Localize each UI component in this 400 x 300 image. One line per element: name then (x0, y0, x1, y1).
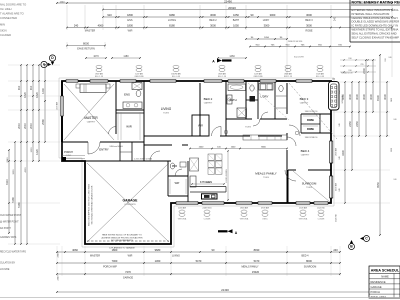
bottom extension lines (57, 246, 340, 276)
svg-text:PORCH: PORCH (64, 151, 73, 154)
grid marker B (349, 240, 355, 250)
svg-text:2450: 2450 (391, 98, 393, 102)
svg-text:2448 SGD: 2448 SGD (202, 207, 212, 209)
svg-text:CEILING INSULATION (HOUSE ONLY: CEILING INSULATION (HOUSE ONLY (352, 16, 399, 20)
hall wall lower (144, 144, 188, 146)
right extra numbers (339, 58, 393, 191)
svg-text:BATH: BATH (229, 98, 236, 102)
hall wall upper (144, 135, 282, 137)
svg-text:240: 240 (74, 24, 79, 28)
left extension lines (8, 65, 60, 244)
svg-text:1220: 1220 (35, 149, 39, 155)
master ceiling diagonals (64, 84, 114, 140)
svg-text:BED 2: BED 2 (209, 19, 217, 22)
dark cupboard box (250, 96, 256, 102)
svg-text:5180: 5180 (17, 202, 21, 208)
svg-text:3030: 3030 (362, 94, 366, 100)
svg-text:NAME: NAME (381, 275, 389, 279)
svg-text:2450: 2450 (355, 121, 359, 127)
entry door leaf (87, 142, 89, 154)
svg-text:SILL 0.9F: SILL 0.9F (172, 76, 181, 78)
svg-text:SILL 1.5F: SILL 1.5F (218, 76, 227, 78)
svg-text:T ALARMS ARE TO: T ALARMS ARE TO (0, 12, 24, 16)
svg-text:5180: 5180 (11, 197, 15, 203)
hall niche lines (276, 96, 287, 108)
top dimension chain room widths row 2 (66, 24, 393, 33)
wc-ldry wall (257, 81, 259, 119)
svg-text:LIVING: LIVING (161, 107, 172, 111)
svg-text:OBSCURE: OBSCURE (134, 76, 144, 78)
sunroom left wall (287, 170, 289, 203)
svg-text:CLEAR: CLEAR (204, 217, 211, 220)
svg-text:8930: 8930 (254, 248, 260, 252)
svg-text:NAL DOORS ARE TO: NAL DOORS ARE TO (0, 3, 26, 7)
grid marker A (41, 61, 51, 67)
svg-text:7000: 7000 (112, 259, 118, 263)
svg-text:2240: 2240 (362, 68, 366, 74)
svg-text:3000: 3000 (306, 13, 312, 17)
bed2 left wall (199, 83, 201, 136)
bottom dimension chain 2 (56, 259, 341, 268)
ens-wir divider (116, 109, 144, 111)
garage label (123, 199, 139, 207)
svg-text:GARAGE: GARAGE (123, 276, 134, 279)
svg-text:2010: 2010 (17, 123, 21, 129)
kitchen fridge (190, 158, 199, 171)
bay window right wall bed3 (329, 79, 340, 111)
svg-text:240: 240 (334, 16, 337, 21)
bath door arc (253, 119, 260, 126)
top dimension 20620 (102, 6, 393, 10)
svg-text:BED 4: BED 4 (302, 254, 310, 257)
svg-text:BED 2: BED 2 (204, 97, 213, 101)
svg-text:9950: 9950 (376, 182, 380, 188)
svg-text:1820: 1820 (23, 92, 27, 98)
svg-text:TILES: TILES (245, 127, 251, 129)
svg-text:AREA SCHEDUL: AREA SCHEDUL (371, 269, 400, 273)
svg-text:8130: 8130 (376, 95, 380, 101)
svg-text:3000: 3000 (306, 24, 312, 28)
svg-text:3000: 3000 (264, 24, 270, 28)
svg-text:2090 1134 910: 2090 1134 910 (288, 41, 303, 43)
svg-text:9680: 9680 (155, 248, 161, 252)
svg-text:1860 ROBE 90: 1860 ROBE 90 (305, 111, 318, 113)
svg-text:9480: 9480 (169, 13, 175, 17)
section marker A top (212, 59, 231, 64)
master bed furniture (76, 84, 110, 93)
svg-text:RESIDENCE: RESIDENCE (371, 280, 386, 284)
svg-text:1800: 1800 (127, 13, 133, 17)
svg-text:WIR: WIR (128, 30, 133, 33)
svg-text:MEALS FAMILY: MEALS FAMILY (255, 172, 276, 176)
svg-text:3030: 3030 (348, 94, 352, 100)
bottom dimension chain 1 (56, 248, 341, 257)
section marker A bottom (218, 229, 238, 235)
bed2-bath wall (225, 81, 227, 136)
garage door label vertical (88, 183, 94, 226)
svg-text:910: 910 (107, 13, 112, 17)
kitchen bench and island (190, 176, 226, 199)
svg-text:910: 910 (385, 58, 387, 61)
svg-text:240: 240 (339, 90, 341, 93)
svg-text:22490: 22490 (224, 0, 232, 3)
svg-text:2010: 2010 (29, 123, 33, 129)
sunroom door arc (285, 170, 296, 181)
svg-text:CARPET: CARPET (204, 101, 213, 104)
left extra rotated numbers (7, 147, 33, 175)
svg-text:MEALS FAMILY: MEALS FAMILY (241, 265, 258, 268)
grid marker C (360, 236, 370, 242)
wc compartment wall (246, 99, 258, 101)
svg-text:CONCRETE: CONCRETE (124, 204, 136, 206)
svg-text:1509 AW: 1509 AW (316, 73, 324, 76)
master-ens wall (115, 81, 117, 134)
svg-text:MIN: MIN (0, 23, 5, 27)
svg-text:2440: 2440 (58, 275, 60, 281)
kitchen tall cupboards (208, 154, 222, 174)
porch post (62, 157, 66, 161)
svg-text:PORCH: PORCH (371, 290, 380, 294)
svg-text:3030: 3030 (383, 94, 387, 100)
sunroom diagonal (293, 171, 330, 202)
svg-text:TILES: TILES (163, 112, 169, 114)
meals internal dimension chain (189, 147, 288, 150)
svg-text:240: 240 (339, 123, 341, 126)
svg-text:SELF CLOSING EXHAUST FAN/DAMP: SELF CLOSING EXHAUST FAN/DAMP (352, 35, 400, 39)
bed3 robe walls (301, 114, 331, 133)
svg-text:NCC REQUIREMENTS: NCC REQUIREMENTS (111, 240, 133, 242)
svg-text:SELECTED APPROX 2400 HIGH x 48: SELECTED APPROX 2400 HIGH x 4800 WIDE (88, 183, 91, 226)
living left wall (143, 81, 145, 161)
right upper tick cluster (340, 58, 376, 72)
svg-text:BED 4: BED 4 (301, 149, 310, 153)
svg-text:1220: 1220 (31, 147, 33, 153)
svg-text:CARPET: CARPET (300, 101, 309, 104)
svg-text:1360: 1360 (155, 259, 161, 263)
svg-text:IC RATE LED DOWNLIGHTS ONLY IN: IC RATE LED DOWNLIGHTS ONLY IN (352, 24, 399, 28)
bed2 door arc (212, 127, 222, 137)
svg-text:ROBE: ROBE (305, 30, 312, 33)
robe dim texts (294, 57, 317, 140)
svg-text:1209 AW: 1209 AW (254, 73, 262, 76)
svg-text:2440: 2440 (7, 157, 9, 163)
svg-text:5470: 5470 (196, 259, 202, 263)
bath block bottom wall (226, 118, 287, 120)
garage top wall (85, 160, 171, 162)
bed4 window right wall (330, 141, 333, 163)
svg-text:PORCH WIP: PORCH WIP (103, 265, 117, 268)
svg-text:8000: 8000 (306, 259, 312, 263)
svg-text:BATH: BATH (233, 19, 240, 22)
svg-text:SIGN: SIGN (0, 29, 7, 33)
svg-text:WIR: WIR (198, 124, 203, 128)
small top sub-dimensions (85, 55, 247, 59)
svg-text:240: 240 (339, 156, 341, 159)
svg-text:BED 3: BED 3 (300, 97, 309, 101)
svg-text:4060: 4060 (72, 248, 78, 252)
svg-text:1050: 1050 (233, 13, 239, 17)
bottom overall dimension 22490 (56, 288, 393, 293)
sunroom window right wall (330, 176, 333, 198)
right extension lines (333, 82, 390, 203)
window tags above top wall (95, 65, 325, 78)
bed3 door arc (289, 125, 300, 136)
svg-text:0909 AW: 0909 AW (284, 73, 292, 76)
ldry fixtures (259, 84, 273, 91)
grid marker D (49, 55, 55, 65)
svg-text:KITCHEN: KITCHEN (200, 180, 212, 184)
svg-text:1218 AW: 1218 AW (56, 102, 59, 110)
svg-text:BED 3: BED 3 (305, 19, 313, 22)
svg-text:ACHIEVE WINDOW PROTECTION AS P: ACHIEVE WINDOW PROTECTION AS PER (101, 236, 143, 239)
roof dashed diagonal 2 (248, 83, 289, 120)
svg-text:3030: 3030 (355, 94, 359, 100)
svg-text:SUNROOM: SUNROOM (302, 182, 317, 186)
svg-text:OLD WATER POINT: OLD WATER POINT (0, 214, 22, 217)
eave return dimension (66, 42, 106, 51)
svg-text:1207 AW: 1207 AW (135, 73, 143, 76)
entry door arc (88, 142, 100, 154)
window head dimensions right (245, 37, 351, 47)
bed3 left wall (286, 83, 288, 203)
svg-text:EAVE RETURN: EAVE RETURN (77, 48, 95, 51)
bottom page edge line (0, 297, 400, 299)
svg-text:910: 910 (17, 85, 21, 90)
svg-text:ROBE: ROBE (307, 128, 314, 131)
svg-text:1240: 1240 (41, 88, 45, 94)
svg-text:TILES: TILES (306, 187, 312, 189)
svg-text:1050: 1050 (233, 24, 239, 28)
svg-text:1800: 1800 (127, 24, 133, 28)
svg-text:4220: 4220 (25, 167, 27, 173)
svg-text:CONNECTED: CONNECTED (0, 16, 17, 20)
svg-text:VERONA: VERONA (299, 217, 308, 220)
bath shower (237, 108, 247, 118)
wir shelving (118, 112, 140, 140)
svg-text:7470: 7470 (125, 270, 131, 274)
bath vanity (227, 95, 232, 104)
svg-text:240: 240 (332, 79, 335, 81)
svg-text:2400mm HIGH: 2400mm HIGH (109, 146, 123, 148)
svg-text:705: 705 (360, 64, 363, 66)
svg-text:PDR: PDR (172, 165, 177, 168)
top wall windows (66, 80, 312, 83)
left wall master (61, 81, 63, 142)
kitchen bench dimension (191, 182, 224, 184)
svg-text:Resident DN: Resident DN (341, 72, 353, 75)
garage diagonals (87, 163, 169, 242)
svg-text:0909 AW: 0909 AW (261, 206, 269, 209)
svg-text:6110: 6110 (5, 179, 9, 185)
svg-text:CARPET: CARPET (87, 120, 96, 123)
svg-text:TOTAL AREA: TOTAL AREA (371, 295, 387, 299)
svg-text:CLEAR: CLEAR (318, 217, 325, 220)
svg-text:1218 AW: 1218 AW (178, 206, 186, 209)
svg-text:@ WATER POINT: @ WATER POINT (0, 221, 19, 224)
svg-text:MASTER: MASTER (84, 116, 98, 120)
svg-text:8000: 8000 (83, 42, 89, 46)
svg-text:2010: 2010 (23, 123, 27, 129)
svg-text:GARAGE: GARAGE (371, 285, 382, 289)
svg-text:1050: 1050 (264, 37, 270, 39)
bed4 door arc (287, 137, 296, 146)
left side water point labels (0, 214, 26, 271)
svg-text:1860 ROBE 90: 1860 ROBE 90 (305, 137, 318, 139)
svg-text:5470: 5470 (254, 259, 260, 263)
svg-text:OBSCURE: OBSCURE (253, 76, 263, 78)
svg-text:240: 240 (333, 248, 338, 252)
bath tub (228, 84, 246, 91)
svg-text:PAVE WITHIN 900mm OF BOUNDARY: PAVE WITHIN 900mm OF BOUNDARY TO (102, 234, 142, 237)
master bottom wall (62, 141, 144, 143)
svg-text:SEAL ALL EXTERNAL CRACKS AND: SEAL ALL EXTERNAL CRACKS AND (352, 31, 397, 35)
svg-text:2450: 2450 (348, 121, 352, 127)
svg-text:2424 BAY: 2424 BAY (341, 94, 344, 104)
svg-text:1800: 1800 (112, 248, 118, 252)
top dimension extension lines (67, 5, 392, 77)
svg-text:8180: 8180 (169, 24, 175, 28)
window tags below bottom wall (178, 206, 326, 220)
room labels (64, 93, 317, 189)
svg-text:ENS: ENS (124, 93, 130, 97)
circled ref 2 (295, 131, 299, 135)
svg-text:3030: 3030 (391, 148, 393, 152)
svg-text:LOUVRE: LOUVRE (0, 269, 10, 271)
master door arc (109, 127, 117, 135)
svg-text:3000: 3000 (210, 24, 216, 28)
bottom wall windows meals-sunroom (176, 202, 328, 205)
svg-text:0909 AW: 0909 AW (218, 73, 226, 76)
pdr door arc (175, 169, 182, 176)
right small texts (341, 57, 398, 181)
svg-text:1180: 1180 (123, 55, 129, 58)
svg-text:1807W AW: 1807W AW (171, 73, 181, 76)
svg-text:1460: 1460 (229, 55, 235, 58)
pdr fixtures (170, 162, 186, 169)
energy rating notes box (350, 0, 400, 42)
svg-text:MASTER: MASTER (85, 30, 96, 33)
svg-text:2580: 2580 (41, 119, 45, 125)
exterior wall outline (62, 81, 331, 244)
svg-text:LIVING: LIVING (172, 254, 180, 257)
bath-wc wall (245, 81, 247, 119)
svg-text:1070: 1070 (93, 55, 99, 58)
svg-text:WIP: WIP (175, 182, 180, 185)
svg-text:1820: 1820 (35, 92, 39, 98)
svg-text:2440: 2440 (58, 252, 60, 258)
wip shelves (170, 179, 186, 194)
svg-text:B.Q L'DRY: B.Q L'DRY (294, 57, 304, 59)
svg-text:910: 910 (348, 58, 351, 60)
svg-text:1240: 1240 (60, 1, 66, 3)
circled ref 1 (224, 130, 228, 134)
top-left notes text block (0, 3, 26, 38)
svg-text:LDRY: LDRY (263, 19, 270, 22)
svg-text:DOUBLE GLAZED WINDOWS (REFER: DOUBLE GLAZED WINDOWS (REFER (352, 20, 400, 24)
overall top dimension 22490 (56, 0, 393, 4)
wc2 toilet (279, 85, 283, 91)
svg-text:3430: 3430 (341, 150, 345, 156)
svg-text:2409 AW: 2409 AW (335, 183, 338, 191)
svg-text:3030: 3030 (369, 94, 373, 100)
svg-text:GARDEN TAPS: GARDEN TAPS (0, 236, 17, 239)
svg-text:TILES: TILES (263, 177, 269, 179)
svg-text:3030: 3030 (13, 169, 15, 175)
garage note text (101, 234, 143, 250)
garage entry door arc (150, 151, 160, 161)
svg-text:SUNROOM: SUNROOM (304, 265, 316, 268)
svg-text:NOTE: ENERGY RATING REQ: NOTE: ENERGY RATING REQ (352, 1, 400, 5)
pdr wip block walls (168, 161, 188, 203)
svg-text:MASTER: MASTER (90, 254, 100, 257)
robe shelf lines (303, 116, 318, 126)
area schedule table (369, 266, 400, 299)
svg-text:SECTIONAL OVERHEAD GARAGE DOOR: SECTIONAL OVERHEAD GARAGE DOOR (91, 185, 94, 224)
svg-text:240: 240 (339, 188, 341, 191)
svg-text:ENTRY: ENTRY (99, 148, 109, 152)
svg-text:22490: 22490 (221, 288, 229, 292)
svg-text:RECYCLE WATER TAPS: RECYCLE WATER TAPS (0, 251, 26, 254)
svg-text:Xm HIGH: Xm HIGH (0, 7, 12, 11)
garage door dashed line (87, 240, 169, 242)
bottom dimension chain 3 (56, 270, 341, 280)
eaves outline (59, 78, 334, 247)
svg-text:2424 SD: 2424 SD (317, 207, 325, 209)
svg-text:OBSC: OBSC (262, 218, 268, 220)
ldry right wall (274, 81, 276, 119)
ldry door arc (261, 112, 268, 119)
entry closet walls (120, 142, 132, 161)
svg-text:DA POINT: DA POINT (0, 227, 11, 230)
svg-text:ENS: ENS (127, 19, 132, 22)
svg-text:L'DRY: L'DRY (261, 95, 269, 99)
svg-text:1.72m STEP DOWN: 1.72m STEP DOWN (134, 159, 153, 161)
svg-text:1509 AW: 1509 AW (299, 206, 307, 209)
svg-text:910: 910 (29, 85, 33, 90)
svg-text:1818 AW: 1818 AW (240, 206, 248, 209)
svg-text:CLUDED: CLUDED (0, 33, 11, 37)
svg-text:WEATHER STRIPS TO ALL EXTERNA: WEATHER STRIPS TO ALL EXTERNA (352, 28, 399, 32)
master left wall window (56, 96, 64, 116)
svg-text:WIR: WIR (128, 254, 133, 257)
right dimension chains (341, 54, 388, 236)
svg-text:CONC: CONC (66, 155, 72, 157)
svg-text:SILL 1.5F: SILL 1.5F (95, 76, 104, 78)
svg-text:20620: 20620 (228, 6, 236, 10)
svg-text:0907 AW: 0907 AW (95, 73, 103, 76)
svg-text:VERONA: VERONA (178, 217, 187, 220)
svg-text:EXTERNAL WALL INSULATION (EXCL: EXTERNAL WALL INSULATION (EXCL (352, 8, 400, 12)
svg-text:CULATION BY: CULATION BY (0, 262, 16, 265)
svg-text:VERONA: VERONA (240, 217, 249, 220)
svg-text:15020: 15020 (252, 270, 260, 274)
roof dashed diagonal (289, 83, 337, 139)
meals north cupboard band (243, 135, 287, 140)
svg-text:3000: 3000 (210, 13, 216, 17)
svg-text:ROBE: ROBE (307, 119, 314, 122)
bed4 bottom wall (288, 169, 331, 171)
svg-text:CARPET: CARPET (301, 153, 310, 156)
svg-text:INTERNAL WALL INSULATION:: INTERNAL WALL INSULATION: (352, 12, 391, 16)
svg-text:3000: 3000 (270, 13, 276, 17)
svg-text:WIR: WIR (126, 125, 131, 129)
svg-text:2424 SD: 2424 SD (336, 214, 338, 222)
right wall window tags (335, 94, 345, 222)
svg-text:SILL 1.5F: SILL 1.5F (284, 76, 293, 78)
wc toilet (250, 85, 254, 91)
svg-text:LIVING DINING: LIVING DINING (226, 169, 228, 183)
meals internal vertical dim (226, 150, 229, 200)
